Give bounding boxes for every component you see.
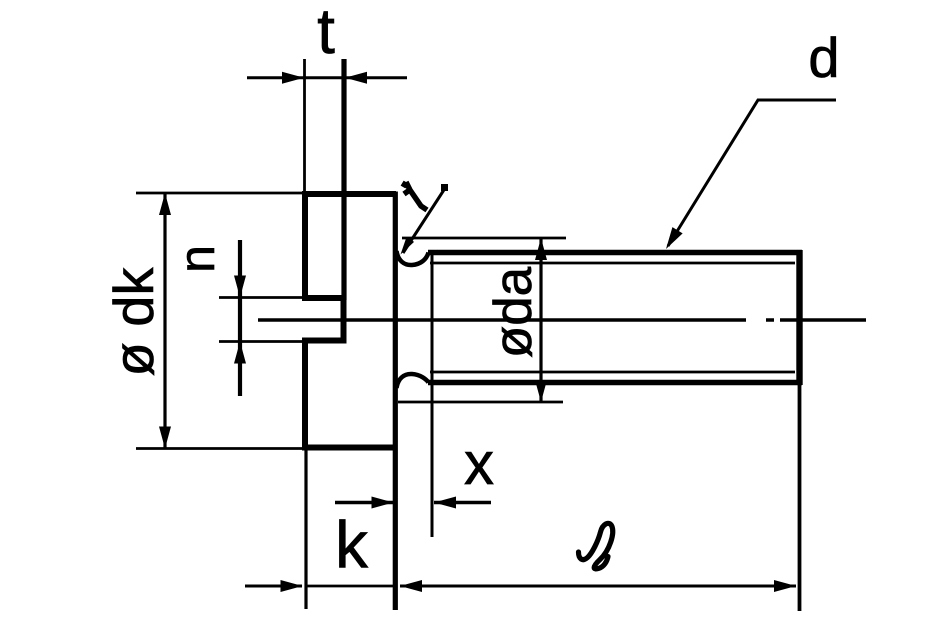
leader r arrowhead (397, 237, 414, 257)
dimension n: bottom extension line (219, 340, 302, 343)
dimension t: left extension line (303, 59, 306, 194)
svg-text:øda: øda (484, 266, 543, 358)
dimension n: lower arrowhead pointing up (234, 342, 246, 364)
dimension l: left arrowhead (400, 580, 422, 592)
label r (fillet radius, handwritten) (403, 182, 427, 210)
dimension x: left dimension line (335, 501, 393, 505)
svg-text:n: n (169, 245, 225, 273)
shaft end face (796, 250, 802, 385)
svg-text:x: x (464, 430, 494, 497)
dimension l: dimension line (400, 585, 796, 588)
svg-text:ø dk: ø dk (102, 267, 165, 377)
dimension x: right dimension line (434, 501, 491, 505)
leader d arrowhead (661, 227, 683, 252)
dimension x: right arrowhead (434, 497, 456, 509)
dimension phi da: top extension line (402, 237, 566, 240)
dimension n: top extension line (219, 296, 302, 299)
screw head outline with slot notch (305, 194, 396, 448)
dimension phi da: bottom extension line (398, 401, 563, 404)
dimension x: thread start extension line (431, 250, 434, 537)
dimension phi dk: dimension line (163, 193, 166, 449)
svg-text:t: t (317, 0, 335, 67)
dimension phi dk: top arrowhead (159, 193, 171, 215)
dimension phi da: top arrowhead (535, 238, 547, 260)
centerline (258, 318, 866, 321)
head left face extension below (304, 450, 307, 609)
label phi da (rotated) (484, 266, 543, 358)
dimension n: upper arrowhead pointing down (234, 276, 246, 298)
shaft top major-diameter line (428, 250, 802, 255)
thread root line top (430, 262, 795, 265)
dimension phi dk: bottom extension line (136, 447, 302, 450)
label n (rotated) (169, 245, 225, 273)
thread root line bottom (430, 371, 795, 374)
dimension phi da: bottom arrowhead (535, 380, 547, 402)
dimension l: right arrowhead (774, 580, 796, 592)
shaft bottom major-diameter line (428, 380, 802, 385)
under-head fillet bottom (397, 374, 429, 388)
dimension n: dimension line (238, 240, 242, 396)
dimension phi da: dimension line (539, 238, 542, 402)
dimension t: left arrowhead (282, 72, 304, 84)
dimension k: outside arrow line (245, 585, 302, 588)
under-head fillet top (397, 251, 429, 265)
label phi dk (rotated) (102, 267, 165, 377)
leader line for d (668, 100, 836, 246)
dimension t: dimension line (247, 76, 407, 79)
svg-text:k: k (335, 508, 369, 582)
dimension x: left arrowhead (372, 497, 394, 509)
screw end extension line below (798, 385, 802, 611)
dimension t: right arrowhead (345, 72, 367, 84)
dimension phi dk: top extension line (136, 192, 302, 195)
dimension phi dk: bottom arrowhead (159, 427, 171, 449)
leader line for r (403, 188, 446, 254)
dimension k: outside arrowhead (281, 580, 303, 592)
svg-text:d: d (808, 26, 839, 89)
dimension t: right (slot-bottom) extension line, thick (341, 59, 346, 300)
bearing face line extended below head (393, 192, 398, 611)
label l (script ell) (579, 523, 613, 569)
dimension k: dimension line between faces (306, 585, 395, 588)
